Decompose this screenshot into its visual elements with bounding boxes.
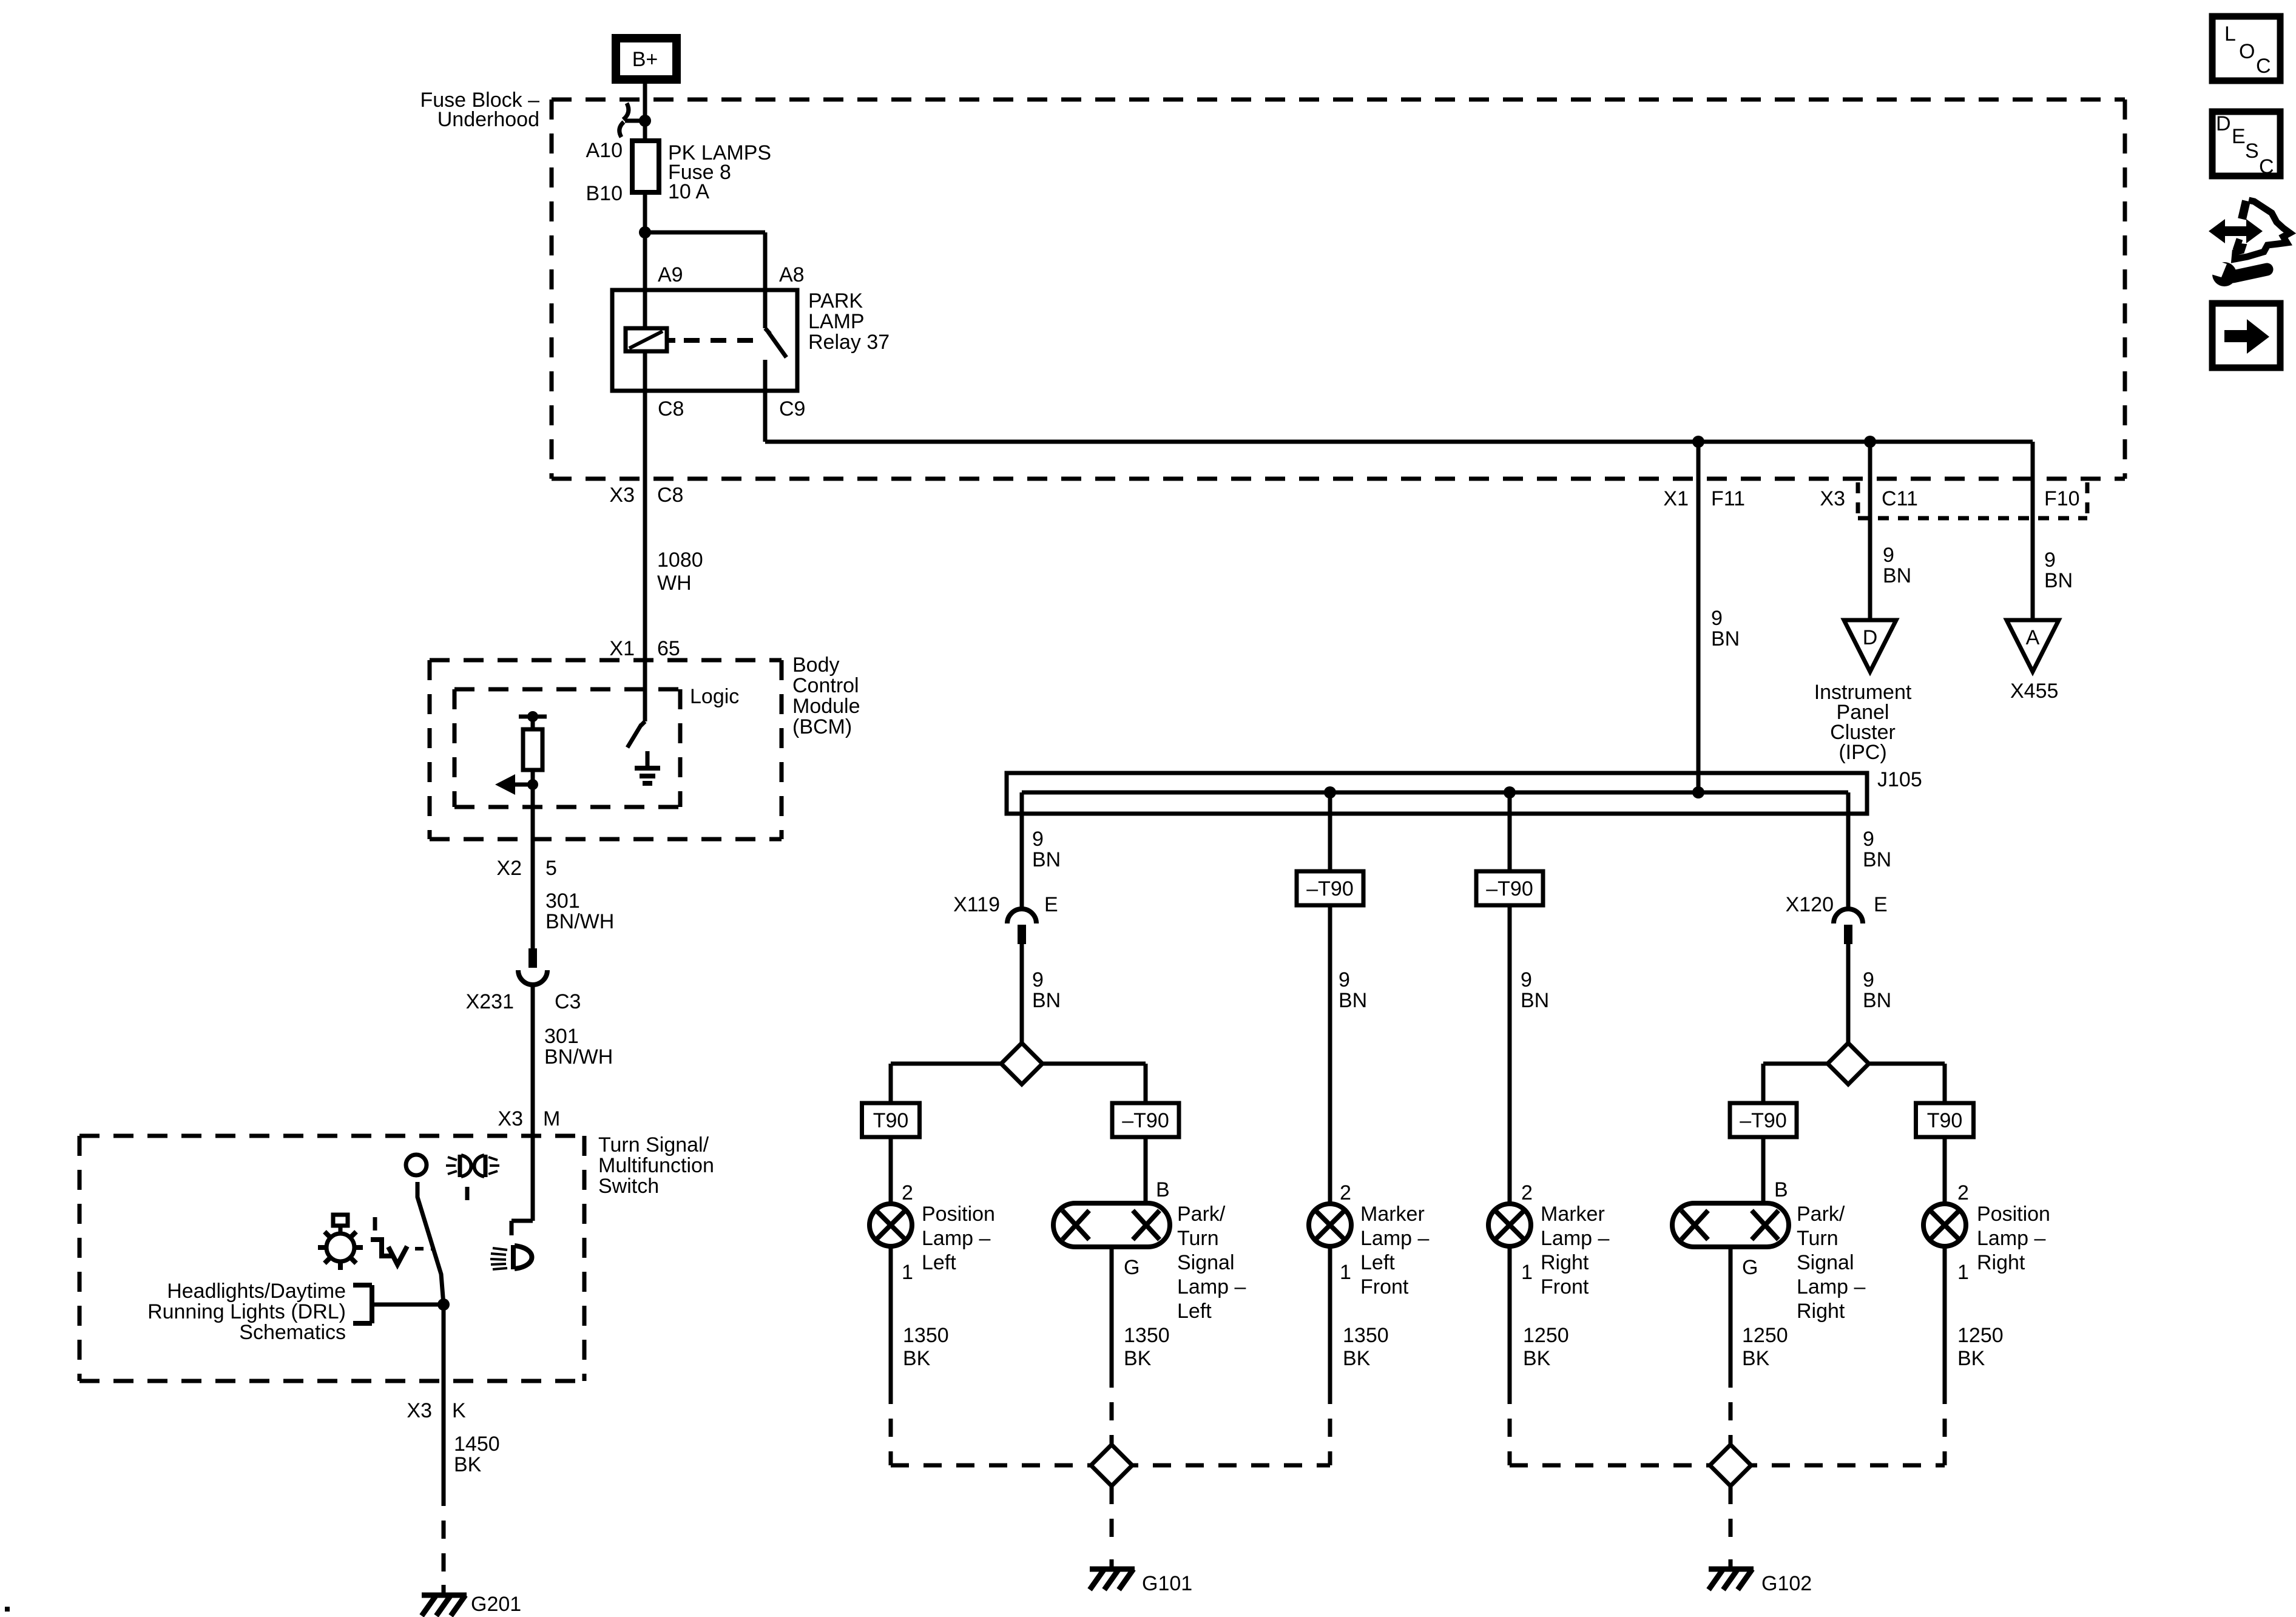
wire -T90 to park/turn right B xyxy=(1761,1137,1766,1203)
junction dot bus feed xyxy=(1692,786,1704,798)
connector box -T90 (park/turn right) xyxy=(1730,1103,1797,1137)
svg-text:PARK: PARK xyxy=(808,289,863,312)
svg-text:9: 9 xyxy=(1521,968,1532,991)
svg-text:9: 9 xyxy=(1339,968,1350,991)
svg-text:B: B xyxy=(1156,1178,1170,1201)
BCM driver switch blade xyxy=(643,660,647,721)
wire A9 into coil xyxy=(643,290,647,328)
wire -T90 to marker right lamp xyxy=(1508,905,1512,1204)
svg-text:–T90: –T90 xyxy=(1122,1109,1169,1132)
relay actuation dashed link xyxy=(667,338,675,343)
connector box -T90 (park/turn left) xyxy=(1112,1103,1179,1137)
dashed ground wire marker right xyxy=(1508,1386,1512,1465)
svg-text:C8: C8 xyxy=(657,484,683,507)
svg-text:Lamp –: Lamp – xyxy=(1177,1275,1246,1298)
fusible element symbol xyxy=(623,103,629,120)
svg-text:9: 9 xyxy=(1032,828,1044,851)
icon part outline xyxy=(2235,200,2290,259)
svg-text:Marker: Marker xyxy=(1360,1203,1425,1226)
wire T90 to position lamp right xyxy=(1943,1137,1947,1204)
svg-text:X3: X3 xyxy=(407,1399,432,1422)
dashed ground wire park/turn right xyxy=(1729,1369,1733,1445)
wire B+ to fuse xyxy=(643,81,647,141)
svg-text:Park/: Park/ xyxy=(1797,1203,1845,1226)
wire splice to T90 right xyxy=(1869,1062,1945,1066)
svg-text:Module: Module xyxy=(792,695,860,718)
splice pack J105 outer box xyxy=(1007,773,1867,814)
junction dot at fusible element xyxy=(639,115,651,127)
svg-text:5: 5 xyxy=(545,857,557,880)
svg-text:X119: X119 xyxy=(953,893,1000,916)
svg-text:2: 2 xyxy=(1340,1181,1351,1204)
svg-text:1250: 1250 xyxy=(1523,1324,1569,1347)
BCM output arrow xyxy=(514,783,533,787)
svg-text:X1: X1 xyxy=(1663,487,1689,510)
svg-text:X455: X455 xyxy=(2010,680,2058,703)
switch blade xyxy=(417,1182,444,1305)
svg-text:BN: BN xyxy=(1883,564,1911,587)
svg-text:Headlights/Daytime: Headlights/Daytime xyxy=(167,1280,346,1303)
svg-text:J105: J105 xyxy=(1877,768,1922,791)
wire marker left down xyxy=(1328,1246,1332,1386)
BCM internal rail xyxy=(519,715,547,719)
wire -T90 to marker left lamp xyxy=(1328,905,1332,1204)
relay PARK LAMP Relay 37 box xyxy=(612,290,797,391)
svg-text:B10: B10 xyxy=(586,182,623,205)
svg-text:Schematics: Schematics xyxy=(239,1321,346,1344)
ground splice diamond G102 xyxy=(1710,1445,1751,1486)
svg-text:9: 9 xyxy=(1032,968,1044,991)
svg-text:Right: Right xyxy=(1797,1300,1845,1323)
svg-text:WH: WH xyxy=(657,572,692,595)
park/turn signal lamp right xyxy=(1672,1203,1789,1247)
svg-text:C3: C3 xyxy=(555,990,581,1013)
dashed ground wire position left xyxy=(889,1386,893,1465)
svg-text:Switch: Switch xyxy=(598,1175,659,1198)
triangle connector A (X455) xyxy=(2007,620,2059,672)
svg-text:Multifunction: Multifunction xyxy=(598,1154,714,1177)
splice diamond right xyxy=(1828,1043,1869,1084)
svg-text:G101: G101 xyxy=(1142,1572,1192,1595)
svg-text:Turn Signal/: Turn Signal/ xyxy=(598,1133,709,1156)
svg-text:Left: Left xyxy=(1360,1251,1395,1274)
park position tick xyxy=(465,1187,470,1200)
wire M into switch xyxy=(531,1136,535,1221)
svg-text:BN: BN xyxy=(1339,989,1367,1012)
svg-text:G201: G201 xyxy=(471,1593,521,1616)
svg-text:D: D xyxy=(2216,112,2231,135)
dashed ground wire marker left xyxy=(1328,1386,1332,1465)
wire position left down xyxy=(889,1246,893,1386)
svg-text:F11: F11 xyxy=(1711,487,1745,510)
svg-text:K: K xyxy=(452,1399,466,1422)
svg-text:Signal: Signal xyxy=(1177,1251,1235,1274)
svg-text:X2: X2 xyxy=(496,857,522,880)
wire bus to X119 xyxy=(1020,792,1024,909)
dashed ground bus left xyxy=(891,1463,1330,1468)
svg-text:X3: X3 xyxy=(609,484,635,507)
svg-text:BK: BK xyxy=(454,1453,482,1476)
svg-text:1: 1 xyxy=(902,1261,913,1284)
wire fuse to relay A9 xyxy=(643,192,647,290)
svg-text:Position: Position xyxy=(922,1203,995,1226)
svg-text:Lamp –: Lamp – xyxy=(1977,1227,2045,1250)
DRL reference bracket xyxy=(353,1283,372,1288)
svg-text:1450: 1450 xyxy=(454,1433,500,1456)
svg-text:9: 9 xyxy=(1863,968,1874,991)
BCM internal ground xyxy=(646,751,650,768)
svg-text:A8: A8 xyxy=(779,263,805,286)
svg-text:1250: 1250 xyxy=(1742,1324,1788,1347)
icon box DESC xyxy=(2212,112,2280,176)
svg-text:BN: BN xyxy=(1863,848,1891,871)
wire X2-5 to X231 xyxy=(531,875,535,951)
icon wrench xyxy=(2233,269,2267,277)
wire splice to -T90 right xyxy=(1763,1062,1828,1066)
svg-text:1350: 1350 xyxy=(903,1324,949,1347)
switch mechanical linkage xyxy=(373,1217,377,1230)
svg-text:Front: Front xyxy=(1360,1275,1409,1298)
svg-text:B+: B+ xyxy=(632,48,658,71)
park lamps position icon xyxy=(448,1157,457,1160)
svg-text:9: 9 xyxy=(2044,549,2056,572)
svg-text:Position: Position xyxy=(1977,1203,2050,1226)
icon box next arrow xyxy=(2212,303,2280,368)
wire A8 into switch xyxy=(763,290,768,328)
wire position right down xyxy=(1943,1246,1947,1386)
wire splice to -T90 left xyxy=(1042,1062,1146,1066)
svg-text:BN: BN xyxy=(1521,989,1549,1012)
svg-text:–T90: –T90 xyxy=(1740,1109,1787,1132)
svg-text:2: 2 xyxy=(1957,1181,1969,1204)
svg-text:X231: X231 xyxy=(466,990,514,1013)
wire bus to -T90 (marker right) xyxy=(1508,792,1512,871)
position lamp left xyxy=(869,1204,912,1246)
svg-text:Right: Right xyxy=(1977,1251,2025,1274)
svg-text:Underhood: Underhood xyxy=(437,108,539,131)
svg-text:M: M xyxy=(543,1107,560,1130)
svg-text:Marker: Marker xyxy=(1541,1203,1605,1226)
junction dot bus tap left marker xyxy=(1324,786,1336,798)
svg-text:G102: G102 xyxy=(1761,1572,1812,1595)
turn signal multifunction switch dashed box xyxy=(79,1134,584,1138)
svg-text:BN/WH: BN/WH xyxy=(544,1045,613,1068)
connector box -T90 (marker left) xyxy=(1297,871,1363,905)
svg-text:–T90: –T90 xyxy=(1486,877,1533,900)
power terminal B+ box xyxy=(616,38,677,79)
svg-text:B: B xyxy=(1774,1178,1788,1201)
wire X3-K to ground solid part xyxy=(442,1381,446,1488)
svg-text:Control: Control xyxy=(792,674,859,697)
svg-text:Logic: Logic xyxy=(690,685,739,708)
svg-text:BN: BN xyxy=(1032,848,1061,871)
svg-text:A10: A10 xyxy=(586,139,623,162)
connector box T90 (position right) xyxy=(1916,1103,1974,1137)
junction dot fuse output xyxy=(639,226,651,238)
svg-text:G: G xyxy=(1742,1256,1758,1279)
svg-text:C8: C8 xyxy=(658,397,684,420)
position lamp right xyxy=(1923,1204,1966,1246)
svg-text:BN: BN xyxy=(1711,627,1740,650)
svg-text:1350: 1350 xyxy=(1124,1324,1170,1347)
BCM logic dashed box xyxy=(454,687,680,692)
svg-text:BN: BN xyxy=(2044,569,2073,592)
dashed wire to G201 xyxy=(442,1488,446,1581)
svg-text:–T90: –T90 xyxy=(1306,877,1354,900)
svg-text:E: E xyxy=(1874,893,1888,916)
ground G101 xyxy=(1110,1559,1114,1569)
off position circle xyxy=(406,1155,427,1175)
svg-text:65: 65 xyxy=(657,637,680,660)
wire X231 to switch X3-M xyxy=(531,984,535,1136)
connector box -T90 (marker right) xyxy=(1476,871,1543,905)
svg-text:A9: A9 xyxy=(658,263,683,286)
svg-text:X3: X3 xyxy=(1820,487,1845,510)
junction dot rail xyxy=(527,711,538,722)
relay coil xyxy=(626,328,667,351)
ground splice diamond G101 xyxy=(1091,1445,1132,1486)
svg-text:X120: X120 xyxy=(1786,893,1834,916)
inline connector X120 E xyxy=(1834,909,1863,923)
BCM pull-up resistor xyxy=(531,717,535,729)
wire X120 to splice xyxy=(1846,944,1851,1043)
svg-text:Body: Body xyxy=(792,653,840,677)
svg-text:301: 301 xyxy=(544,1025,579,1048)
splice diamond left xyxy=(1001,1043,1042,1084)
svg-text:S: S xyxy=(2245,140,2259,163)
svg-text:BK: BK xyxy=(903,1347,931,1370)
svg-text:BN: BN xyxy=(1032,989,1061,1012)
wire park/turn right G down xyxy=(1729,1247,1733,1369)
svg-text:1350: 1350 xyxy=(1343,1324,1389,1347)
junction dot arrow node xyxy=(527,779,538,790)
park/turn signal lamp left xyxy=(1053,1203,1170,1247)
svg-text:A: A xyxy=(2026,626,2040,649)
svg-text:(IPC): (IPC) xyxy=(1838,741,1886,764)
wire X119 to splice xyxy=(1020,944,1024,1043)
svg-text:301: 301 xyxy=(545,890,580,913)
svg-text:1: 1 xyxy=(1340,1261,1351,1284)
svg-text:E: E xyxy=(1044,893,1058,916)
wire -T90 to marker right lamp gap xyxy=(1508,1246,1512,1386)
svg-text:LAMP: LAMP xyxy=(808,310,865,333)
svg-text:1080: 1080 xyxy=(657,549,703,572)
relay switch blade xyxy=(765,328,770,334)
svg-text:Lamp –: Lamp – xyxy=(1797,1275,1865,1298)
junction dot C11 branch xyxy=(1864,436,1876,448)
wire park/turn left G down xyxy=(1110,1247,1114,1369)
icon box LOC xyxy=(2212,16,2280,81)
svg-text:1: 1 xyxy=(1521,1261,1533,1284)
svg-text:Lamp –: Lamp – xyxy=(1541,1227,1609,1250)
svg-text:X1: X1 xyxy=(609,637,635,660)
wire coil to C8 xyxy=(643,351,647,391)
svg-text:9: 9 xyxy=(1863,828,1874,851)
svg-text:BN: BN xyxy=(1863,989,1891,1012)
wire bus to -T90 (marker left) xyxy=(1328,792,1332,871)
svg-text:1: 1 xyxy=(1957,1261,1969,1284)
wire switch output to X3-K xyxy=(442,1305,446,1381)
junction dot F11 branch xyxy=(1692,436,1704,448)
svg-text:10 A: 10 A xyxy=(668,180,709,203)
svg-text:C: C xyxy=(2256,55,2271,78)
svg-text:G: G xyxy=(1124,1256,1140,1279)
wire bus to X120 xyxy=(1846,792,1851,909)
svg-text:Turn: Turn xyxy=(1797,1227,1838,1250)
svg-text:1250: 1250 xyxy=(1957,1324,2004,1347)
relay fixed contact / wire to C9 xyxy=(763,360,768,391)
wire corner down to F10 xyxy=(2031,442,2035,620)
svg-text:9: 9 xyxy=(1711,607,1723,630)
fuse block – underhood dashed border xyxy=(552,98,2125,102)
svg-text:2: 2 xyxy=(1521,1181,1533,1204)
svg-text:Left: Left xyxy=(922,1251,956,1274)
svg-text:Relay 37: Relay 37 xyxy=(808,331,890,354)
svg-text:F10: F10 xyxy=(2044,487,2080,510)
wire C8 to BCM X1-65 xyxy=(643,391,647,721)
svg-text:C11: C11 xyxy=(1882,487,1918,510)
marker lamp right front xyxy=(1488,1204,1531,1246)
svg-text:Front: Front xyxy=(1541,1275,1589,1298)
BCM dashed box xyxy=(430,658,782,663)
svg-text:L: L xyxy=(2224,22,2236,46)
svg-text:BK: BK xyxy=(1523,1347,1551,1370)
dashed ground wire position right xyxy=(1943,1386,1947,1465)
svg-text:BK: BK xyxy=(1957,1347,1985,1370)
svg-text:2: 2 xyxy=(902,1181,913,1204)
svg-text:Lamp –: Lamp – xyxy=(1360,1227,1429,1250)
wire F11 branch down xyxy=(1697,442,1701,792)
wire C9 down and right xyxy=(763,391,768,442)
svg-text:X3: X3 xyxy=(498,1107,523,1130)
svg-text:C: C xyxy=(2259,155,2274,178)
pass-through connector dotted box xyxy=(1856,482,1860,518)
dashed wire to G101 xyxy=(1110,1486,1114,1551)
dashed ground bus right xyxy=(1510,1463,1945,1468)
wire branch to relay A8 xyxy=(645,231,765,235)
wire C11 branch down xyxy=(1868,442,1872,620)
svg-text:BK: BK xyxy=(1124,1347,1152,1370)
svg-text:9: 9 xyxy=(1883,544,1894,567)
icon adjust arrow xyxy=(2220,226,2251,236)
svg-text:T90: T90 xyxy=(873,1109,909,1132)
svg-text:BK: BK xyxy=(1742,1347,1770,1370)
svg-text:E: E xyxy=(2232,125,2246,148)
ground G102 xyxy=(1729,1559,1733,1569)
splice pack J105 bus bar xyxy=(1022,791,1848,795)
svg-text:Left: Left xyxy=(1177,1300,1212,1323)
svg-text:Right: Right xyxy=(1541,1251,1589,1274)
svg-text:D: D xyxy=(1863,626,1878,649)
svg-text:Lamp –: Lamp – xyxy=(922,1227,990,1250)
ground G201 xyxy=(442,1585,446,1595)
wire splice to T90 left xyxy=(891,1062,1001,1066)
dashed wire to G102 xyxy=(1729,1486,1733,1551)
svg-text:O: O xyxy=(2239,40,2255,63)
svg-text:C9: C9 xyxy=(779,397,805,420)
svg-text:Signal: Signal xyxy=(1797,1251,1854,1274)
svg-text:BN/WH: BN/WH xyxy=(545,910,614,933)
IPC triangle connector D xyxy=(1844,620,1896,672)
wire -T90 to park/turn left B xyxy=(1144,1137,1148,1203)
marker lamp left front xyxy=(1309,1204,1351,1246)
svg-text:BK: BK xyxy=(1343,1347,1371,1370)
svg-text:Running Lights (DRL): Running Lights (DRL) xyxy=(147,1300,346,1323)
page mark xyxy=(5,1607,10,1612)
inline connector X119 E xyxy=(1007,909,1036,923)
dashed ground wire park/turn left xyxy=(1110,1369,1114,1445)
inline connector X231 C3 xyxy=(518,970,547,985)
junction dot switch output xyxy=(437,1298,450,1311)
svg-text:Turn: Turn xyxy=(1177,1227,1219,1250)
headlamp position icon xyxy=(511,1245,516,1269)
svg-text:Park/: Park/ xyxy=(1177,1203,1226,1226)
wire resistor to output xyxy=(531,770,535,875)
svg-text:T90: T90 xyxy=(1927,1109,1963,1132)
wire T90 to position lamp left xyxy=(889,1137,893,1204)
headlamp rotary switch knob icon xyxy=(326,1234,354,1261)
connector box T90 (position left) xyxy=(862,1103,920,1137)
fuse PK LAMPS Fuse 8 (rect) xyxy=(632,141,659,192)
junction dot bus tap right marker xyxy=(1504,786,1516,798)
svg-text:(BCM): (BCM) xyxy=(792,715,852,738)
